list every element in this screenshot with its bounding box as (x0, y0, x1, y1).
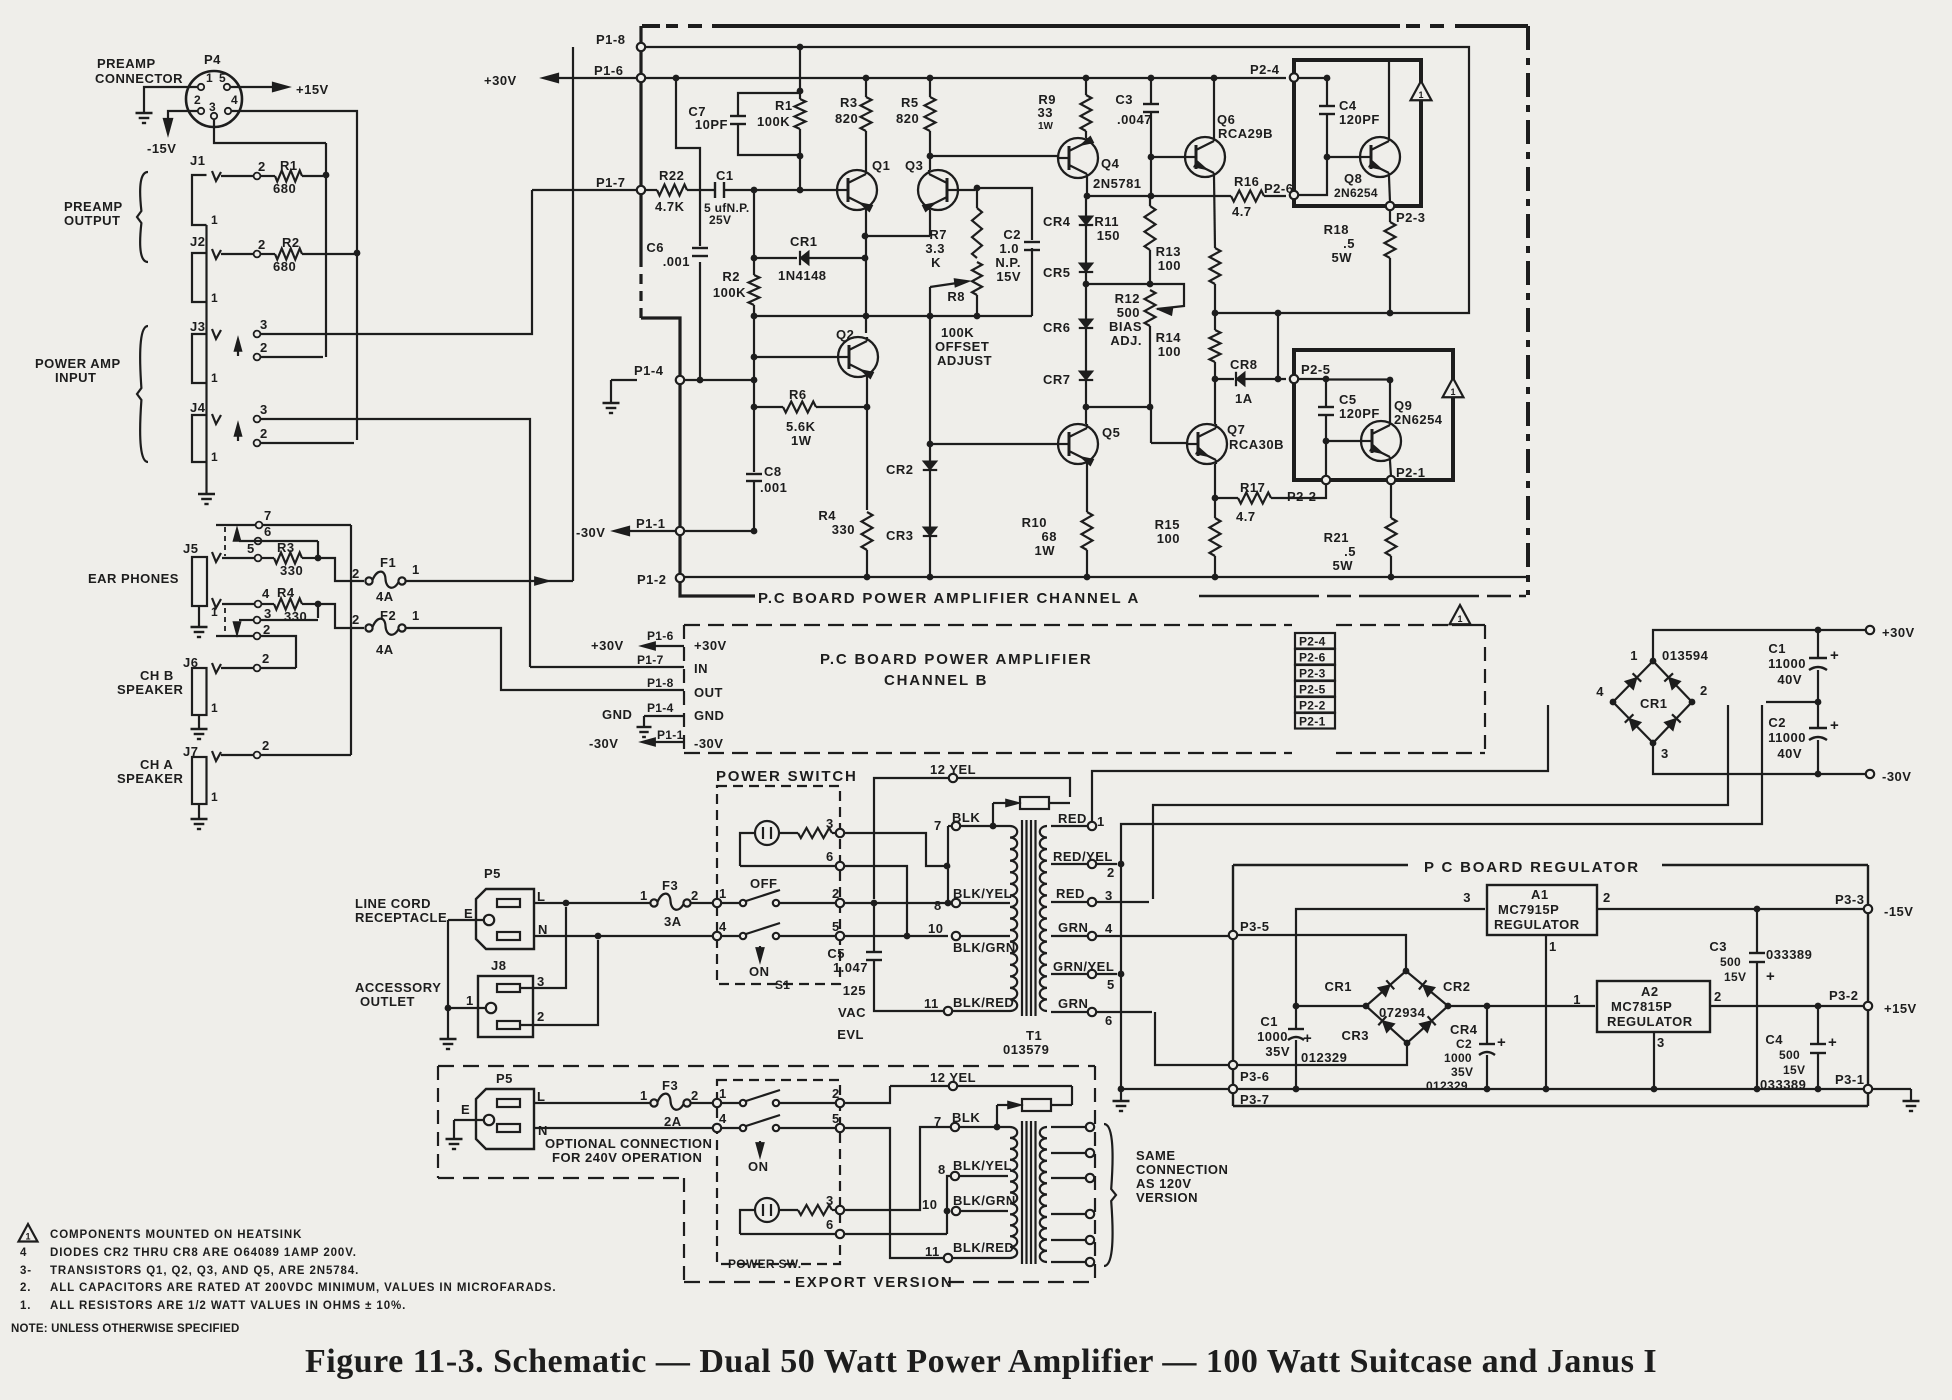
node J6 pin 2 (254, 665, 261, 672)
svg-text:4: 4 (20, 1247, 27, 1259)
svg-text:BIAS: BIAS (1109, 319, 1142, 334)
svg-text:C6: C6 (646, 240, 664, 255)
svg-text:C2: C2 (1456, 1037, 1472, 1051)
wire breaker to BLK (992, 803, 994, 823)
svg-text:500: 500 (1117, 305, 1140, 320)
svg-text:OUTLET: OUTLET (360, 994, 415, 1009)
svg-text:1: 1 (1457, 614, 1462, 624)
node C3 at +30V rail (1148, 75, 1155, 82)
svg-text:012329: 012329 (1301, 1050, 1347, 1065)
node R15 at bottom rail (1212, 574, 1219, 581)
pin box P2-4 (1295, 633, 1335, 649)
wire A1 ground pin 1 (1545, 935, 1547, 1086)
svg-text:2: 2 (260, 426, 268, 441)
svg-text:4.7K: 4.7K (655, 199, 685, 214)
svg-text:CR1: CR1 (790, 234, 818, 249)
node R1 right junction (323, 172, 330, 179)
node R11 bottom bias rail (1147, 281, 1154, 288)
svg-text:40V: 40V (1777, 746, 1802, 761)
wire C6 riser (676, 81, 700, 246)
svg-text:P2-5: P2-5 (1301, 362, 1330, 377)
node C1 at +30V (1815, 627, 1822, 634)
svg-text:1: 1 (211, 701, 218, 715)
node R3 at +30V rail (863, 75, 870, 82)
svg-text:R11: R11 (1094, 214, 1119, 229)
node R6 at ground column (751, 404, 758, 411)
svg-text:820: 820 (835, 111, 858, 126)
wire Q9 emitter to P2-1 (1390, 461, 1391, 476)
svg-text:R15: R15 (1155, 517, 1180, 532)
svg-text:1: 1 (211, 213, 218, 227)
fuse F3 3A (650, 899, 657, 906)
svg-text:1: 1 (211, 371, 218, 385)
svg-text:P2-4: P2-4 (1299, 635, 1326, 649)
svg-text:100: 100 (1158, 344, 1181, 359)
svg-text:LINE CORD: LINE CORD (355, 896, 431, 911)
svg-text:-30V: -30V (589, 736, 618, 751)
wire lamp return to pin 6 (740, 865, 836, 867)
svg-text:P1-4: P1-4 (647, 701, 674, 715)
svg-text:35V: 35V (1265, 1044, 1290, 1059)
svg-text:P2-5: P2-5 (1299, 683, 1326, 697)
svg-text:10: 10 (922, 1197, 937, 1212)
svg-text:11000: 11000 (1768, 730, 1806, 745)
node C3 column at emitter rail (1148, 193, 1155, 200)
resistor R2 680 (260, 253, 275, 255)
svg-text:N: N (538, 922, 548, 937)
node C4 bottom Q8 base (1324, 154, 1331, 161)
svg-text:4A: 4A (376, 642, 394, 657)
PC board regulator outline (1233, 864, 1408, 866)
secondary tap RED 1 (1051, 825, 1088, 827)
node R2 at CR1 (751, 255, 758, 262)
svg-text:11: 11 (925, 1244, 940, 1259)
lamp dropping resistor (779, 832, 798, 834)
svg-text:2: 2 (263, 622, 271, 637)
ON arrow (759, 946, 761, 957)
resistor R3 820 (861, 97, 872, 131)
svg-text:P1-6: P1-6 (647, 629, 674, 643)
node C2 at plus rail (1484, 1003, 1491, 1010)
node R13 bottom at feedback rail (1212, 310, 1219, 317)
svg-text:C4: C4 (1765, 1032, 1783, 1047)
wire L row (534, 902, 650, 904)
node Q4 emitter rail (1084, 193, 1091, 200)
wire export switch pin5 to pin 11 (844, 1128, 944, 1258)
svg-text:3: 3 (209, 100, 216, 114)
wire bridge minus rail to A1 (1299, 1005, 1366, 1007)
svg-text:1.0: 1.0 (999, 241, 1019, 256)
node C3 at -15V rail (1754, 906, 1761, 913)
svg-text:RECEPTACLE: RECEPTACLE (355, 910, 447, 925)
svg-text:4: 4 (231, 93, 238, 107)
svg-text:OPTIONAL CONNECTION: OPTIONAL CONNECTION (545, 1136, 712, 1151)
svg-text:C5: C5 (827, 946, 845, 961)
wire column to C8 (753, 383, 755, 472)
secondary tap GRN/YEL 5 (1051, 973, 1117, 975)
svg-text:120PF: 120PF (1339, 406, 1380, 421)
wire C3 to Q4 emitter rail (1150, 157, 1152, 193)
pin 3 power switch (836, 829, 844, 837)
svg-text:10PF: 10PF (695, 117, 728, 132)
node C6 riser at +30V rail (673, 75, 680, 82)
svg-text:3: 3 (1661, 746, 1669, 761)
svg-text:MC7815P: MC7815P (1611, 999, 1672, 1014)
svg-text:1: 1 (640, 1088, 648, 1103)
heatsink flag triangle 2 (1443, 378, 1464, 397)
node C6 at P1-4 line (697, 377, 704, 384)
node C4 top (1324, 75, 1331, 82)
svg-text:VAC: VAC (838, 1005, 866, 1020)
svg-text:RED/YEL: RED/YEL (1053, 849, 1113, 864)
svg-text:POWER AMP: POWER AMP (35, 356, 121, 371)
svg-text:Q9: Q9 (1394, 398, 1412, 413)
wire Q5 collector rail (1086, 406, 1150, 408)
svg-text:3A: 3A (664, 914, 682, 929)
svg-text:RCA29B: RCA29B (1218, 126, 1273, 141)
wire pin 3 jog to BLK node (844, 833, 944, 866)
svg-text:1: 1 (719, 886, 727, 901)
svg-text:CONNECTOR: CONNECTOR (95, 71, 183, 86)
jack common sleeve line (205, 225, 207, 487)
J5 switch arrow up (236, 531, 238, 540)
resistor R13 100 (1210, 248, 1221, 284)
wire Q4 base line (933, 155, 1058, 157)
export switch contact row 1 (713, 1099, 721, 1107)
svg-text:1: 1 (1573, 992, 1581, 1007)
svg-text:.001: .001 (760, 480, 787, 495)
wire R1 junction down to J3 pin 2 (325, 143, 327, 357)
wire +30V into box (1298, 77, 1327, 79)
wire pin 6 to AC row (844, 866, 907, 933)
svg-text:Q4: Q4 (1101, 156, 1120, 171)
svg-text:4: 4 (1105, 921, 1113, 936)
node rail at R8 (974, 313, 981, 320)
svg-text:BLK/RED: BLK/RED (953, 1240, 1014, 1255)
J5 switch arrow down (236, 622, 238, 631)
R8 wiper (930, 282, 964, 287)
svg-text:OUT: OUT (694, 685, 723, 700)
svg-text:GRN: GRN (1058, 920, 1088, 935)
svg-text:1: 1 (640, 888, 648, 903)
pin box P2-1 (1295, 713, 1335, 729)
svg-text:ACCESSORY: ACCESSORY (355, 980, 441, 995)
node J4 pin 3 (254, 416, 261, 423)
svg-text:100: 100 (1157, 531, 1180, 546)
svg-text:40V: 40V (1777, 672, 1802, 687)
node R2 column at P1-4 line (751, 377, 758, 384)
pin P3-5 (1229, 931, 1237, 939)
svg-text:5: 5 (832, 1111, 840, 1126)
svg-text:100: 100 (1158, 258, 1181, 273)
node J2 pin 2 (254, 251, 261, 258)
preamp connector P4 (186, 71, 242, 127)
svg-text:BLK/RED: BLK/RED (953, 995, 1014, 1010)
svg-text:1: 1 (25, 1232, 30, 1242)
wire J3 pin 2 to R1 junction (261, 356, 323, 358)
svg-text:L: L (537, 1089, 545, 1104)
svg-text:5: 5 (247, 541, 255, 556)
node center tap RED/YEL (1118, 861, 1125, 868)
node L to J8 pin 3 (563, 900, 570, 907)
svg-text:J5: J5 (183, 541, 198, 556)
svg-text:Figure 11-3. Schematic — Dua: Figure 11-3. Schematic — Dual 50 Watt Po… (305, 1343, 1657, 1380)
svg-text:1: 1 (211, 450, 218, 464)
node lamp AC junction (904, 933, 911, 940)
svg-text:MC7915P: MC7915P (1498, 902, 1559, 917)
pin P3-7 (1229, 1085, 1237, 1093)
node C1 R2 junction (751, 187, 758, 194)
wire C5 node to P2-2 pin (1325, 441, 1327, 476)
svg-text:FOR 240V OPERATION: FOR 240V OPERATION (552, 1150, 702, 1165)
svg-text:P1-4: P1-4 (634, 363, 664, 378)
PC board channel A outline (642, 24, 1528, 28)
svg-text:8: 8 (934, 898, 942, 913)
capacitor C7 10PF (738, 93, 800, 116)
dashed jack switch links J5 (224, 527, 226, 556)
svg-text:1.047: 1.047 (833, 960, 868, 975)
svg-text:RED: RED (1058, 811, 1087, 826)
capacitor C4 500 15V (1817, 1009, 1819, 1044)
svg-text:ON: ON (748, 1159, 769, 1174)
svg-text:S1: S1 (775, 978, 790, 992)
node C4 at +15V rail (1815, 1003, 1822, 1010)
svg-text:J1: J1 (190, 153, 205, 168)
wire Q5 emitter (1086, 464, 1088, 512)
svg-text:F3: F3 (662, 1078, 678, 1093)
svg-text:GRN/YEL: GRN/YEL (1053, 959, 1114, 974)
svg-text:R5: R5 (901, 95, 919, 110)
pin P3-3 (1864, 905, 1872, 913)
resistor R4 330 (222, 603, 254, 605)
svg-text:3: 3 (260, 402, 268, 417)
diode CR5 (1079, 263, 1093, 272)
svg-text:-15V: -15V (1884, 904, 1913, 919)
wire A2 ground pin 3 (1653, 1032, 1655, 1086)
svg-text:BLK/GRN: BLK/GRN (953, 1193, 1016, 1208)
capacitor C1 1000 35V regulator (1295, 1009, 1297, 1029)
switch S1 contact row 2 (713, 932, 721, 940)
svg-text:DIODES CR2 THRU CR8 ARE O: DIODES CR2 THRU CR8 ARE O64089 1AMP 200V… (50, 1247, 357, 1259)
PC board channel B outline (684, 624, 1292, 626)
svg-text:R4: R4 (818, 508, 836, 523)
export pin 3 switch (836, 1206, 844, 1214)
wire GRN 6 to P3-6 (1155, 1012, 1229, 1065)
svg-text:COMPONENTS MOUNTED ON HEATS: COMPONENTS MOUNTED ON HEATSINK (50, 1229, 302, 1241)
svg-text:Q3: Q3 (905, 158, 923, 173)
secondary tap RED/YEL 2 (1051, 863, 1117, 865)
pin 8 BLK/YEL (952, 899, 960, 907)
export transformer secondary (1040, 1127, 1047, 1262)
pin 10 BLK/GRN export (952, 1207, 960, 1215)
resistor R1 100K feedback (799, 91, 801, 99)
svg-text:2: 2 (1107, 865, 1115, 880)
wire J1 tip to R1 (221, 175, 253, 177)
pin P3-2 (1864, 1002, 1872, 1010)
svg-text:1: 1 (412, 608, 420, 623)
svg-text:R3: R3 (277, 540, 295, 555)
svg-text:5W: 5W (1332, 250, 1353, 265)
wire bridge minus to -30V (1653, 743, 1866, 774)
wire midpoint to center tap (1766, 701, 1815, 703)
svg-text:150: 150 (1097, 228, 1120, 243)
svg-text:2: 2 (258, 159, 266, 174)
svg-text:.001: .001 (663, 254, 690, 269)
svg-text:A2: A2 (1641, 984, 1659, 999)
wire Q9 collector (1389, 383, 1391, 421)
wire J8 pin 2 riser (520, 940, 598, 1025)
svg-text:Q1: Q1 (872, 158, 890, 173)
pin P1-2 channel A (676, 574, 684, 582)
node C5 bottom Q9 base (1323, 438, 1330, 445)
J4 switch arrow (237, 426, 239, 441)
svg-text:500: 500 (1720, 955, 1741, 969)
svg-text:VERSION: VERSION (1136, 1190, 1198, 1205)
svg-text:330: 330 (832, 522, 855, 537)
svg-text:4: 4 (1596, 684, 1604, 699)
wire A1 output -15V rail (1597, 908, 1864, 910)
ground under J6 (198, 722, 200, 729)
svg-text:6: 6 (826, 849, 834, 864)
wire P4 pin 1 to ground (144, 87, 197, 106)
svg-text:3: 3 (264, 606, 272, 621)
svg-text:3: 3 (1105, 888, 1113, 903)
transistor Q3 (918, 170, 958, 210)
node Q9 collector top (1387, 377, 1394, 384)
svg-text:SPEAKER: SPEAKER (117, 771, 183, 786)
svg-text:C1: C1 (1768, 641, 1786, 656)
svg-text:+15V: +15V (1884, 1001, 1917, 1016)
svg-text:11000: 11000 (1768, 656, 1806, 671)
svg-text:REGULATOR: REGULATOR (1607, 1014, 1693, 1029)
svg-text:2N6254: 2N6254 (1334, 186, 1378, 200)
svg-text:+: + (1766, 968, 1775, 985)
pin 6 power switch (836, 862, 844, 870)
svg-text:Q5: Q5 (1102, 425, 1120, 440)
wire P1-1 -30V line (684, 530, 751, 532)
svg-text:P.C BOARD POWER AMPLIFIER: P.C BOARD POWER AMPLIFIER (820, 651, 1093, 668)
pin 2 switch (836, 899, 844, 907)
wire CR8 line (1215, 378, 1234, 380)
svg-text:P1-8: P1-8 (647, 676, 674, 690)
svg-text:R7: R7 (929, 227, 947, 242)
svg-text:SPEAKER: SPEAKER (117, 682, 183, 697)
wire Q6 collector to +30V rail (1213, 81, 1215, 137)
svg-text:P2-1: P2-1 (1299, 715, 1326, 729)
diode CR6 (1079, 319, 1093, 328)
svg-text:3.3: 3.3 (925, 241, 945, 256)
svg-text:1: 1 (1549, 939, 1557, 954)
wire N row (534, 935, 713, 937)
wire Q9 base (1326, 440, 1361, 442)
node R3 junction (315, 555, 322, 562)
wire Q7 base riser (1150, 407, 1152, 443)
svg-text:C3: C3 (1115, 92, 1133, 107)
svg-text:GND: GND (602, 707, 632, 722)
power switch dashed box (717, 786, 840, 984)
wire J8 pin 1 to ground (448, 1007, 485, 1009)
transistor Q5 (1058, 424, 1098, 464)
svg-text:500: 500 (1779, 1048, 1800, 1062)
wire J4 pin 2 to R2 junction (261, 442, 354, 444)
svg-text:P3-6: P3-6 (1240, 1069, 1269, 1084)
resistor R17 4.7 (1215, 497, 1238, 499)
node E J8 junction (445, 1005, 452, 1012)
wire Q2 emitter down (866, 377, 868, 510)
wire export N row (534, 1127, 713, 1129)
svg-text:Q7: Q7 (1227, 422, 1245, 437)
svg-text:2N6254: 2N6254 (1394, 412, 1443, 427)
wire P1-8 output rail (645, 47, 1469, 313)
wire Q4 emitter rail to R16 (1087, 195, 1231, 197)
node C7 bottom tap (797, 153, 804, 160)
svg-text:R13: R13 (1156, 244, 1181, 259)
ground under J5 (198, 620, 200, 627)
ground at P4 (143, 106, 145, 113)
svg-text:CH A: CH A (140, 757, 173, 772)
svg-text:EVL: EVL (837, 1027, 864, 1042)
node filter midpoint (1815, 699, 1822, 706)
svg-text:-30V: -30V (694, 736, 723, 751)
pin P1-6 channel A (637, 74, 645, 82)
resistor R14 100 (1214, 316, 1216, 330)
heatsink flag triangle (1411, 81, 1432, 100)
svg-text:2: 2 (1714, 989, 1722, 1004)
svg-text:3: 3 (537, 974, 545, 989)
transistor Q2 (838, 337, 878, 377)
svg-text:1W: 1W (1035, 543, 1056, 558)
svg-text:1: 1 (1097, 814, 1105, 829)
pin P2-6 on heatsink (1290, 191, 1298, 199)
node Q7 emitter junction (1212, 495, 1219, 502)
node C7 top tap (797, 88, 804, 95)
svg-text:125: 125 (843, 983, 866, 998)
export switch contact row 2 (713, 1124, 721, 1132)
wire P2-5 into box (1298, 378, 1323, 380)
wire -30V arrow at P1-1 (618, 530, 676, 532)
svg-text:1W: 1W (791, 433, 812, 448)
node J7 pin 2 (254, 752, 261, 759)
ground at P1-4 (610, 396, 612, 403)
transformer T1 secondary winding (1040, 826, 1047, 1011)
transistor Q4 2N5781 (1085, 131, 1087, 138)
wire 12 YEL (874, 778, 1070, 899)
svg-text:+30V: +30V (591, 638, 624, 653)
resistor R21 .5 5W (1390, 484, 1392, 518)
svg-text:R1: R1 (775, 98, 793, 113)
node R2 right junction (354, 250, 361, 257)
wire -15V from P4 pin 2 (168, 111, 197, 126)
secondary tap GRN 4 (1051, 935, 1229, 937)
resistor R22 4.7K (645, 189, 657, 191)
svg-text:4: 4 (262, 586, 270, 601)
pin 7 BLK (952, 822, 960, 830)
node CR5 CR6 junction (1083, 281, 1090, 288)
node R9 at +30V rail (1083, 75, 1090, 82)
node C5 top (1323, 376, 1330, 383)
heatsink flag on channel B (1450, 605, 1471, 624)
svg-text:C8: C8 (764, 464, 782, 479)
svg-text:3: 3 (1463, 890, 1471, 905)
svg-text:-15V: -15V (147, 141, 176, 156)
svg-text:N.P.: N.P. (995, 255, 1021, 270)
wire export switch pin2 to 12YEL (844, 1086, 890, 1103)
wire P1-4 ground line (684, 379, 751, 381)
svg-text:2: 2 (258, 237, 266, 252)
wire Q3 base to offset node (958, 189, 975, 191)
node J1 pin 2 (254, 173, 261, 180)
svg-text:CR1: CR1 (1324, 979, 1352, 994)
